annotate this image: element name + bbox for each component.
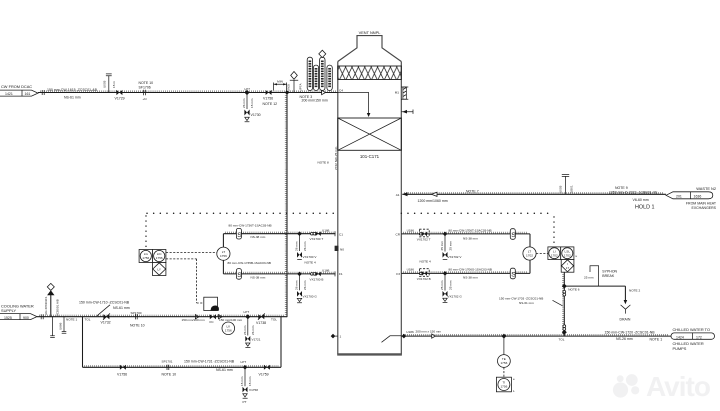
svg-text:S: S [237,272,242,279]
svg-text:1424: 1424 [676,335,684,339]
riser junction at x287 [285,90,290,95]
svg-text:NS-26 mm: NS-26 mm [616,337,633,341]
MIN dimension bracket [274,80,287,91]
vent stub UB01 on N2 line [559,175,574,195]
drain stub 2 below line [59,317,67,334]
svg-text:V1758: V1758 [249,388,258,392]
column vent stack [338,36,402,62]
temperature element TE 1756 [498,336,511,367]
svg-text:SP1701: SP1701 [162,359,173,363]
svg-text:26 mm: 26 mm [251,325,255,335]
branch arrow up 2CB091 [44,283,60,316]
pipe tag pill 3 [320,57,325,90]
manway M1 [395,87,409,99]
svg-text:80 mm-CW-1736T-1SAC03-NB: 80 mm-CW-1736T-1SAC03-NB [229,224,272,228]
junction diamond at TOL [562,330,567,335]
svg-text:U666: U666 [59,322,63,330]
reducer outlet [432,334,436,338]
svg-text:15 mm: 15 mm [240,376,244,386]
relay LY 1702 [561,260,574,273]
S hose symbol left upper [236,228,242,239]
spec break SF1706 [139,81,154,101]
svg-text:900: 900 [23,316,29,320]
pipe label 150mm-CW-1703 [499,297,563,306]
flange pair after connector [42,90,44,95]
svg-text:S: S [237,232,242,239]
drain drop VX1700 G [295,274,318,303]
svg-text:SP1700: SP1700 [131,311,142,315]
junction LP7 with drain drop [242,87,254,109]
svg-text:1756: 1756 [225,329,232,333]
dashed link block to LT [166,251,217,253]
svg-text:LPT: LPT [241,360,247,364]
column 101-C171 vessel walls [337,62,402,356]
svg-text:26 mm: 26 mm [295,280,299,290]
pipe tag pill 1 [307,57,312,90]
svg-text:NS-61 mm: NS-61 mm [113,306,130,310]
svg-text:LY: LY [157,268,161,272]
junction diamond right lower [443,271,448,276]
off-page connector WASTE N2 [666,186,717,210]
svg-text:U186: U186 [322,228,330,232]
valve V1732 [101,313,111,324]
svg-text:NOTE 1: NOTE 1 [650,338,663,342]
svg-text:TOL: TOL [85,318,91,322]
svg-text:1756: 1756 [500,385,507,389]
svg-text:26 mm: 26 mm [303,280,307,290]
signal drop to LG block [145,216,147,249]
signal dashed block to LV [166,259,204,303]
drain header vertical 150mm-CW-1703 [563,272,565,336]
svg-text:80 mm-CW-1735B-1SAC03-NB: 80 mm-CW-1735B-1SAC03-NB [228,261,271,265]
svg-text:150 mm/100 mm: 150 mm/100 mm [219,318,243,322]
signal dotted line right segment [401,212,554,214]
shared display LIC 1756 [153,250,166,263]
vent drop VX1702 V [440,234,462,260]
nozzle N0 [335,246,345,252]
svg-text:PUMPS: PUMPS [673,346,687,351]
svg-text:NOTE 10: NOTE 10 [130,323,145,327]
svg-text:L: L [513,389,515,393]
shared display LG 1702 [561,247,578,260]
main CW header line (150mm-CW-1615) [38,92,338,94]
junction diamond TE [501,334,506,339]
valve V1756 NOTE 12 [263,90,278,106]
svg-text:V1721: V1721 [252,337,261,341]
S hose symbol right upper [510,229,516,240]
instrument vent UP7A [286,72,302,93]
pipe tag pill 4 [327,65,332,90]
svg-text:LPT: LPT [244,310,250,314]
svg-text:PT: PT [243,400,247,404]
svg-text:1756: 1756 [500,361,507,365]
arrow into nozzle A1 [402,192,407,196]
valve V1738 [256,313,266,324]
svg-text:VX1700 B: VX1700 B [310,277,324,281]
svg-text:NS-38 mm: NS-38 mm [251,275,266,279]
svg-text:150 mm-CW-1720 -ZCSC01-NB: 150 mm-CW-1720 -ZCSC01-NB [605,330,656,334]
S hose symbol left lower [236,269,242,280]
svg-text:TOL: TOL [271,317,277,321]
dashed link LT to LI [536,253,548,255]
level transmitter LT 1702 [523,247,536,260]
svg-text:SUPPLY: SUPPLY [1,308,16,313]
vent drop VX1700 V [295,234,318,265]
svg-text:VX1700 G: VX1700 G [303,294,318,298]
svg-text:NS-38 mm: NS-38 mm [251,235,266,239]
valve VX1702 T in dashed box [417,229,431,241]
column internal outlet vortex pipe [382,336,402,343]
svg-text:200 mm x 150 mm: 200 mm x 150 mm [416,329,442,333]
svg-text:150 mm-CW-1710 -ZCSC01-NB: 150 mm-CW-1710 -ZCSC01-NB [79,301,130,305]
valve V1759 [259,365,270,377]
right bridle upper tap line [401,234,530,247]
control valve LV station [204,297,219,324]
syphon break line [564,286,627,304]
svg-text:CHILLED WATER TO: CHILLED WATER TO [673,327,710,332]
svg-text:26 mm: 26 mm [295,241,299,251]
svg-text:FC: FC [210,320,215,324]
svg-text:UG 2PD09F1: UG 2PD09F1 [44,296,48,315]
relay LY 1756 [153,263,166,276]
svg-text:NOTE 1: NOTE 1 [66,317,77,321]
off-page connector COOLING WATER SUPPLY [0,303,37,320]
bottom outlet junction diamond left [331,334,338,339]
pipe tag pill 2 [313,65,318,90]
svg-text:26 mm: 26 mm [303,241,307,251]
junction LPT drop V1721 [243,310,261,347]
nozzle A stub [401,110,413,114]
drain stub 1 below line [50,317,55,338]
pipe label 150mm-CW-1720 [605,330,663,341]
svg-text:V1759: V1759 [259,372,269,376]
svg-text:U186: U186 [322,269,330,273]
reducer NOTE 3 [300,90,328,102]
svg-text:1756: 1756 [142,256,149,260]
junction diamond right upper [443,232,448,237]
syphon break symbol [584,266,618,286]
left bridle lower tap line [223,261,335,274]
svg-text:NOTE 10: NOTE 10 [162,372,177,376]
off-page connector CHILLED WATER TO [671,327,715,351]
watermark avito logo [613,371,711,402]
svg-text:2CB091 A/B: 2CB091 A/B [56,299,60,316]
valve VX1702 B in dashed box [417,269,431,281]
root valve VX1700 T [310,228,336,241]
junction diamond NOTE 6 [562,284,580,292]
junction diamond left upper [297,231,302,236]
temperature indicator TI 1756 [496,367,515,393]
outlet junction diamond [402,334,407,339]
svg-text:26 mm: 26 mm [243,325,247,335]
left bridle upper tap line [223,234,335,247]
svg-text:15 mm: 15 mm [248,376,252,386]
reducer after LV [219,315,223,319]
svg-text:172: 172 [696,335,702,339]
flange pair on vertical upper [563,290,566,296]
flange pair on vertical lower [563,325,566,331]
root valve VX1700 B [310,269,336,282]
column packing bed X section [338,118,402,150]
bottom outlet line right [401,335,671,337]
svg-text:U186: U186 [406,330,414,334]
drain funnel [620,305,631,322]
svg-text:V1738: V1738 [256,321,266,325]
junction LPT drop V1758 [240,360,258,404]
svg-text:1756: 1756 [156,256,163,260]
waste N2 line NOTE 7 [402,193,666,195]
flange pair after connector [41,314,43,319]
column internal inlet pipe [338,93,371,118]
valve V1729 [115,90,125,101]
positioner circle LV 1756 [222,322,235,335]
svg-text:TOL: TOL [559,338,565,342]
shared display LI 1702 [548,247,561,260]
svg-text:150 mm-CW-1731 -ZCSC01-NB: 150 mm-CW-1731 -ZCSC01-NB [184,359,235,363]
column demister crosshatch [338,66,402,80]
svg-text:V1756: V1756 [117,372,127,376]
pipe label 150mm-CW-1710 with leader [79,301,130,316]
svg-text:NOTE 4: NOTE 4 [305,260,316,264]
svg-text:e: e [513,377,515,381]
pipe label 150mm-CW-1731 [184,359,235,372]
spec break SP1701 [162,359,177,376]
svg-text:VX1700 V: VX1700 V [303,255,318,259]
junction diamond left lower [297,272,302,277]
flow arrow on line [431,192,437,196]
svg-text:NS-61 mm: NS-61 mm [216,368,233,372]
bottom supply line [37,316,287,318]
signal dotted line left segment [147,212,338,214]
S hose symbol right lower [510,268,516,279]
riser line x287 [286,93,288,318]
shared display LG 1756 [139,250,152,263]
reducer before LV [195,315,199,319]
valve V1756 loop [117,365,127,377]
svg-text:1756: 1756 [220,254,227,258]
level transmitter LT 1756 [217,247,230,260]
svg-text:VX1700 T: VX1700 T [310,237,324,241]
valve V1730 (vertical) [244,110,260,122]
diamond vent above tag3 [319,50,326,57]
svg-text:150 mm/100 mm: 150 mm/100 mm [182,318,206,322]
spec break SP1700 [130,311,145,327]
svg-text:V1732: V1732 [101,321,111,325]
bypass loop line [83,317,282,368]
right bridle lower tap line [401,260,530,273]
drain drop VX1702 G [440,273,462,302]
svg-text:1525: 1525 [4,316,12,320]
off-page connector CW FROM DCAC [0,84,38,96]
vent stub with cap at x108.8 [103,74,116,93]
